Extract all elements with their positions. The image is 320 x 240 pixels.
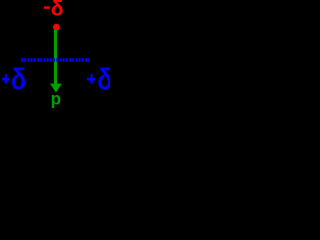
dipole arrow head (green triangle pointing down) (50, 84, 62, 93)
dotted axis line (blue) (21, 58, 90, 62)
minus sign of -delta label (red) (44, 6, 50, 8)
svg-text:δ: δ (97, 65, 110, 99)
plus sign of left +delta label (blue) (2, 78, 9, 81)
background (0, 0, 110, 108)
svg-text:p: p (51, 90, 62, 108)
svg-text:δ: δ (11, 65, 26, 99)
dipole arrow shaft (green) (54, 30, 57, 85)
plus sign of right +delta label (blue) (87, 78, 95, 81)
atom dot (red circle, negative end of dipole) (53, 24, 60, 31)
svg-text:δ: δ (51, 0, 64, 23)
